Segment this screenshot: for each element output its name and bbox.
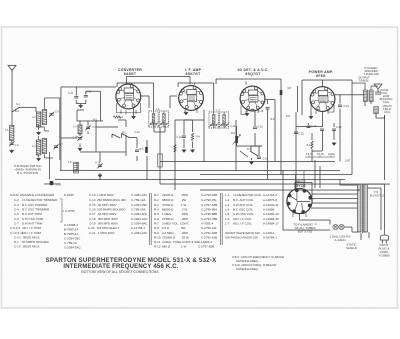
svg-text:C-789-29A: C-789-29A	[131, 207, 146, 211]
svg-text:S-1: S-1	[16, 103, 20, 106]
svg-text:R-12: R-12	[307, 144, 313, 147]
svg-text:C-2795-88B: C-2795-88B	[201, 212, 217, 216]
svg-text:C-2797-82B: C-2797-82B	[198, 244, 214, 248]
svg-text:C-2394-29C: C-2394-29C	[131, 203, 148, 207]
svg-text:C-16: C-16	[258, 126, 264, 129]
svg-text:R-4: R-4	[196, 135, 201, 138]
svg-text:C-2799-95A: C-2799-95A	[201, 208, 217, 212]
svg-text:C-12: C-12	[135, 131, 141, 134]
svg-text:C-12: C-12	[14, 235, 21, 239]
svg-text:C-14: C-14	[230, 125, 236, 128]
svg-text:C-2394-4AC: C-2394-4AC	[131, 217, 149, 221]
svg-text:C-2791-91B: C-2791-91B	[201, 236, 217, 240]
svg-text:C-19: C-19	[344, 105, 350, 108]
svg-text:ADJ. I.F COIL: ADJ. I.F COIL	[233, 217, 252, 221]
svg-text:BOTTOM VIEW OF ALL SOCKET CONN: BOTTOM VIEW OF ALL SOCKET CONNECTIONS	[81, 270, 159, 274]
svg-text:B.C ANT TRIM: B.C ANT TRIM	[22, 212, 42, 216]
svg-text:C-2790-96B: C-2790-96B	[201, 193, 217, 197]
svg-text:6A8GT: 6A8GT	[124, 72, 137, 76]
svg-text:250 MMFD MICA 400: 250 MMFD MICA 400	[97, 198, 126, 202]
svg-text:A-14824-2: A-14824-2	[198, 240, 212, 244]
svg-text:.25W: .25W	[181, 212, 188, 216]
svg-text:TRANS.: TRANS.	[359, 79, 369, 83]
svg-text:SHORT WAVE BAND SW: SHORT WAVE BAND SW	[225, 231, 260, 235]
svg-text:A-14912: A-14912	[263, 231, 275, 235]
svg-text:R-8: R-8	[154, 226, 159, 230]
svg-text:C-13: C-13	[89, 193, 96, 197]
svg-text:C-2790-411: C-2790-411	[201, 226, 217, 230]
svg-text:C-15: C-15	[89, 203, 96, 207]
svg-text:L-6: L-6	[225, 217, 230, 221]
svg-text:L-5: L-5	[225, 212, 230, 216]
svg-text:R-4: R-4	[154, 207, 159, 211]
svg-text:.2W: .2W	[181, 198, 187, 202]
svg-text:C-19: C-19	[263, 158, 269, 161]
svg-text:50 MMFD MOLDED: 50 MMFD MOLDED	[22, 240, 50, 244]
svg-text:.25 W: .25 W	[181, 235, 189, 239]
svg-text:SW PHONO-RADIO SW: SW PHONO-RADIO SW	[225, 236, 258, 240]
svg-text:C-5: C-5	[55, 110, 60, 113]
svg-text:C-2394-29C: C-2394-29C	[64, 236, 81, 240]
svg-text:R-1: R-1	[14, 240, 19, 244]
svg-text:C-789-2A: C-789-2A	[64, 241, 77, 245]
svg-text:S.W OSC TRIM: S.W OSC TRIM	[22, 217, 44, 221]
svg-text:C-20: C-20	[299, 133, 305, 136]
svg-text:15.05: 15.05	[317, 152, 324, 156]
svg-text:B-7985-1A: B-7985-1A	[64, 227, 78, 231]
svg-text:C-7: C-7	[14, 221, 19, 225]
svg-text:.02 MFD 600V: .02 MFD 600V	[97, 212, 116, 216]
svg-text:C-17: C-17	[311, 125, 317, 128]
svg-text:B.C OSC TRIMMER: B.C OSC TRIMMER	[22, 207, 50, 211]
svg-text:L-2: L-2	[225, 198, 230, 202]
svg-text:.25W: .25W	[181, 193, 188, 197]
svg-text:R-10: R-10	[154, 235, 161, 239]
svg-text:.006 MFD 600V: .006 MFD 600V	[97, 221, 118, 225]
svg-text:A-14924: A-14924	[334, 238, 346, 242]
svg-text:C-12: C-12	[86, 90, 92, 93]
svg-text:R-12: R-12	[154, 244, 161, 248]
svg-text:3 MEG VOL. CONT.: 3 MEG VOL. CONT.	[162, 221, 189, 225]
svg-text:R-2: R-2	[154, 198, 159, 202]
svg-text:SPARTON SUPERHETERODYNE MODEL: SPARTON SUPERHETERODYNE MODEL 531-X & 53…	[46, 257, 218, 264]
svg-text:47000 Ω: 47000 Ω	[162, 203, 174, 207]
svg-text:C-789-12A: C-789-12A	[131, 198, 146, 202]
svg-text:.25W: .25W	[181, 217, 188, 221]
svg-text:SHIELD: SHIELD	[346, 246, 358, 250]
svg-text:68000 Ω: 68000 Ω	[162, 207, 174, 211]
svg-text:B.C OSC COIL: B.C OSC COIL	[233, 208, 254, 212]
svg-text:100 MMFD MOLDED: 100 MMFD MOLDED	[97, 207, 126, 211]
svg-text:C-17: C-17	[89, 212, 96, 216]
svg-text:B-A: B-A	[15, 110, 19, 113]
svg-text:2.87: 2.87	[345, 159, 351, 163]
svg-text:0.5 Ω: 0.5 Ω	[162, 226, 170, 230]
svg-text:A-14588-3: A-14588-3	[64, 223, 78, 227]
svg-text:R-9: R-9	[271, 118, 276, 121]
svg-text:COIL: COIL	[384, 110, 391, 114]
svg-text:I.F REJECTOR TRIMMER: I.F REJECTOR TRIMMER	[22, 198, 58, 202]
svg-text:L-1: L-1	[225, 193, 230, 197]
svg-text:.1 MFD 400V: .1 MFD 400V	[97, 231, 115, 235]
svg-text:R-9: R-9	[154, 231, 159, 235]
svg-text:275000 Ω: 275000 Ω	[162, 235, 176, 239]
svg-text:100Ω: 100Ω	[328, 152, 335, 156]
svg-text:ANTENNA FREQ.: ANTENNA FREQ.	[236, 267, 259, 271]
svg-text:A-14984-17: A-14984-17	[263, 222, 279, 226]
svg-text:C-13: C-13	[14, 244, 21, 248]
svg-text:1 W: 1 W	[181, 244, 187, 248]
svg-text:S.W ANT TRIM: S.W ANT TRIM	[22, 221, 43, 225]
svg-text:680 Ω: 680 Ω	[162, 244, 171, 248]
svg-text:C-2790-76L: C-2790-76L	[201, 198, 217, 202]
svg-text:R-5: R-5	[231, 132, 236, 135]
svg-text:GANG VARIABLE CONDENSER: GANG VARIABLE CONDENSER	[10, 193, 55, 197]
svg-text:.02 MFD 400V: .02 MFD 400V	[97, 203, 116, 207]
svg-text:1 MEG: 1 MEG	[162, 212, 172, 216]
svg-text:2.2 MEG: 2.2 MEG	[162, 231, 175, 235]
svg-text:C-9: C-9	[119, 116, 124, 119]
svg-text:C-8 & 9: C-8 & 9	[10, 226, 21, 230]
svg-text:3 MEG. TONE CONT & SW: 3 MEG. TONE CONT & SW	[162, 240, 199, 244]
svg-text:C-15: C-15	[258, 110, 264, 113]
svg-text:C-2394-8(2): C-2394-8(2)	[131, 212, 147, 216]
svg-text:R-11: R-11	[154, 240, 161, 244]
svg-text:A-14684: A-14684	[263, 208, 275, 212]
svg-text:.00025 MICA: .00025 MICA	[22, 235, 40, 239]
svg-text:5Y3G: 5Y3G	[296, 184, 306, 188]
svg-text:C-2: C-2	[14, 198, 19, 202]
svg-text:C-2394-24C: C-2394-24C	[131, 231, 148, 235]
svg-text:B-27977-2: B-27977-2	[370, 194, 384, 198]
svg-text:R-3: R-3	[140, 148, 145, 151]
svg-text:C-2394-5AC: C-2394-5AC	[64, 245, 82, 249]
svg-text:R-7: R-7	[247, 148, 252, 151]
svg-text:C-18: C-18	[336, 126, 342, 129]
svg-text:C-3: C-3	[73, 136, 78, 139]
svg-text:ADJ. I.F TRIM: ADJ. I.F TRIM	[22, 231, 41, 235]
svg-text:C-21: C-21	[89, 231, 96, 235]
svg-text:B.C.: B.C.	[122, 131, 127, 134]
svg-text:L-7: L-7	[225, 222, 230, 226]
svg-text:C-7: C-7	[59, 143, 64, 146]
svg-text:D-8235: D-8235	[64, 193, 74, 197]
svg-text:S.W OSC COIL: S.W OSC COIL	[233, 212, 254, 216]
svg-text:B.C OSC PADDER: B.C OSC PADDER	[22, 203, 48, 207]
svg-text:.25W: .25W	[181, 231, 188, 235]
svg-text:C-10: C-10	[177, 136, 183, 139]
svg-text:R-6: R-6	[154, 217, 159, 221]
svg-text:C-11: C-11	[68, 92, 74, 95]
svg-text:R-8: R-8	[286, 115, 291, 118]
svg-text:C-14: C-14	[89, 198, 96, 202]
svg-text:.006 MFD 400V: .006 MFD 400V	[97, 217, 118, 221]
svg-text:A-14984-35: A-14984-35	[263, 217, 279, 221]
svg-text:C-2793-78B: C-2793-78B	[201, 217, 217, 221]
svg-text:R-3: R-3	[154, 203, 159, 207]
svg-text:L-4: L-4	[225, 208, 230, 212]
svg-text:.00025 MICA: .00025 MICA	[22, 244, 40, 248]
svg-text:27500 Ω: 27500 Ω	[162, 217, 174, 221]
svg-text:A-14682-19: A-14682-19	[263, 212, 279, 216]
svg-text:BUT 5Y3G: BUT 5Y3G	[298, 230, 313, 234]
svg-text:C-4284-24C: C-4284-24C	[131, 193, 148, 197]
svg-text:ADJ. I.F COIL: ADJ. I.F COIL	[233, 222, 252, 226]
svg-text:6F6G: 6F6G	[316, 74, 326, 78]
svg-text:B-7985-1A: B-7985-1A	[64, 232, 78, 236]
svg-text:6SK7GT: 6SK7GT	[186, 72, 202, 76]
svg-text:1 W: 1 W	[181, 203, 187, 207]
svg-text:5W: 5W	[181, 226, 186, 230]
svg-text:C-13: C-13	[56, 183, 62, 186]
svg-text:C-2: C-2	[15, 144, 20, 147]
svg-text:I.F REJECTOR COIL: I.F REJECTOR COIL	[233, 193, 262, 197]
svg-text:C-2797-84B: C-2797-84B	[201, 203, 217, 207]
svg-text:14.75: 14.75	[306, 152, 313, 156]
svg-text:ADJ. I.F TRIM: ADJ. I.F TRIM	[22, 226, 41, 230]
svg-text:R-7: R-7	[154, 221, 159, 225]
svg-text:A-14784-1: A-14784-1	[263, 236, 277, 240]
svg-text:B.C. ANT COIL: B.C. ANT COIL	[233, 198, 254, 202]
svg-text:C-2394-8AC: C-2394-8AC	[131, 221, 149, 225]
svg-text:6SQ7GT: 6SQ7GT	[245, 72, 261, 76]
svg-text:C-20: C-20	[88, 226, 95, 230]
svg-text:R-1: R-1	[93, 118, 98, 121]
svg-text:C-5: C-5	[14, 212, 19, 216]
svg-text:C-2791-92B: C-2791-92B	[201, 231, 217, 235]
svg-text:B.C. POSITION: B.C. POSITION	[17, 171, 38, 175]
svg-text:C-16: C-16	[89, 207, 96, 211]
svg-text:C-4: C-4	[14, 207, 19, 211]
svg-text:C-19: C-19	[89, 221, 96, 225]
svg-text:23000 Ω: 23000 Ω	[162, 193, 174, 197]
svg-text:S.W ANT COIL: S.W ANT COIL	[233, 203, 253, 207]
svg-text:A-14718-2: A-14718-2	[263, 193, 277, 197]
svg-text:C-3: C-3	[14, 203, 19, 207]
svg-text:L-3: L-3	[225, 203, 230, 207]
svg-text:A-7081-4: A-7081-4	[201, 222, 214, 226]
svg-text:.2 W: .2 W	[181, 207, 187, 211]
svg-text:C-13: C-13	[95, 161, 101, 164]
svg-text:68000 Ω: 68000 Ω	[162, 198, 174, 202]
svg-text:1 MFD 400V: 1 MFD 400V	[97, 193, 114, 197]
svg-text:A-14768-1: A-14768-1	[131, 226, 145, 230]
svg-text:C-6: C-6	[14, 217, 19, 221]
svg-text:C-4: C-4	[93, 126, 98, 129]
svg-text:A-9756: A-9756	[65, 209, 75, 213]
svg-text:C-18: C-18	[89, 217, 96, 221]
svg-text:A-14876-6: A-14876-6	[263, 198, 277, 202]
svg-text:8-8 MFD ELECT.: 8-8 MFD ELECT.	[97, 226, 120, 230]
svg-text:6-P: 6-P	[288, 87, 292, 90]
svg-text:R-1: R-1	[154, 193, 159, 197]
svg-text:A-14620-21: A-14620-21	[263, 203, 279, 207]
svg-text:R-5: R-5	[154, 212, 159, 216]
svg-text:Y-27889: Y-27889	[378, 254, 389, 258]
